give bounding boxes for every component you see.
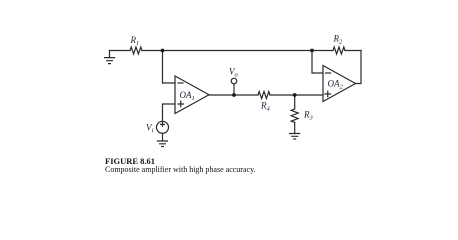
svg-text:R1: R1: [130, 35, 140, 47]
svg-text:OA2: OA2: [328, 79, 344, 91]
wire node A down to OA1 inverting input: [163, 51, 176, 84]
resistor R1: [130, 47, 142, 54]
wire node C to OA2 noninverting input: [295, 94, 323, 96]
wire R3 to ground: [294, 123, 296, 134]
op-amp OA2: [323, 66, 356, 102]
wire R1 to node A: [142, 50, 163, 52]
wire node B to R2: [312, 50, 333, 52]
junction node A: [161, 49, 165, 53]
svg-text:Vi: Vi: [146, 123, 154, 135]
wire node C down to R3: [294, 95, 296, 109]
op-amp OA1: [175, 76, 209, 114]
resistor R4: [258, 92, 270, 99]
ground (left, at R1 input): [105, 51, 115, 64]
junction node C: [293, 93, 297, 97]
figure caption: [105, 157, 155, 165]
resistor R2: [333, 47, 345, 54]
wire node A to node B (top rail): [163, 50, 313, 52]
resistor R3: [291, 109, 298, 122]
ground (under R3): [290, 134, 300, 140]
wire R4 to node C: [270, 94, 295, 96]
svg-text:R2: R2: [333, 34, 344, 46]
wire node B down to OA2 inverting input: [312, 51, 323, 74]
ground (under Vi): [158, 133, 168, 146]
svg-text:Vo: Vo: [229, 67, 239, 79]
svg-text:R3: R3: [303, 110, 314, 122]
wire R2 to feedback corner: [345, 50, 361, 52]
source Vi: [157, 121, 169, 133]
wire OA2 output to feedback: [356, 51, 362, 84]
wire OA1 output to node Vo: [209, 94, 234, 96]
wire OA1 noninverting input to Vi: [163, 104, 176, 121]
node Vo stub and terminal: [231, 78, 237, 95]
wire node Vo to R4: [234, 94, 258, 96]
svg-text:OA1: OA1: [180, 90, 195, 102]
svg-text:R4: R4: [260, 101, 271, 113]
junction node B: [310, 49, 314, 53]
wire ground to R1: [110, 50, 131, 52]
junction at Vo: [232, 93, 236, 97]
